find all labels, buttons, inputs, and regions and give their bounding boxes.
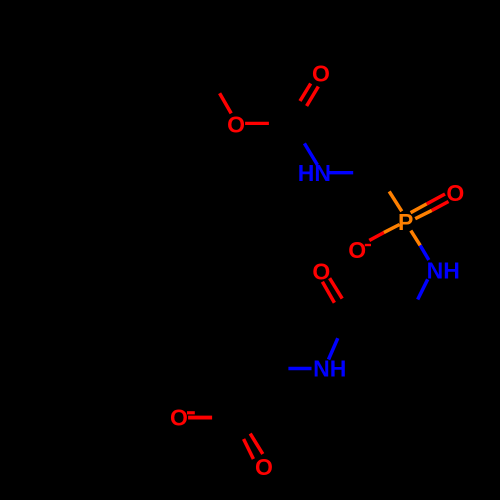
wire: bond HN to CH2 (blue half) xyxy=(328,171,353,174)
wire: C=O double bond of carbamate, left line (red half) xyxy=(300,84,311,102)
svg-text:HN: HN xyxy=(298,160,331,186)
node minus charge on carboxylate O xyxy=(187,411,195,414)
wire: bond CH2 to P (orange half) xyxy=(389,191,402,211)
wire: P=O double bond lower line red half xyxy=(432,202,449,211)
svg-text:O: O xyxy=(446,180,464,206)
svg-text:NH: NH xyxy=(313,356,346,382)
node minus charge on phosphonate O xyxy=(365,244,371,246)
svg-text:O: O xyxy=(170,404,188,430)
svg-text:P: P xyxy=(398,209,413,235)
svg-text:O: O xyxy=(227,112,245,138)
svg-text:O: O xyxy=(348,237,366,263)
wire: bond O(ester) to carbonyl C (red half) xyxy=(245,122,269,125)
svg-text:O: O xyxy=(312,61,330,87)
wire: bond P to O- (orange half) xyxy=(384,225,400,233)
wire: bond NH to CH2 below (blue half) xyxy=(418,279,428,299)
svg-text:O: O xyxy=(255,454,273,480)
wire: amide C=O double bond, right line (red half) xyxy=(330,278,343,298)
wire: carboxylate C=O double bond, left line (red half) xyxy=(244,439,254,459)
wire: P=O double bond upper line orange half xyxy=(411,204,427,213)
wire: bond carbonyl C to N of HN (blue half) xyxy=(304,143,317,165)
wire: bond P to NH (orange half) xyxy=(411,231,420,246)
wire: bond amide C to NH (blue half) xyxy=(329,338,338,359)
wire: bond P to O- (red half) xyxy=(369,233,384,241)
wire: amide C=O double bond, left line (red half) xyxy=(322,282,334,303)
wire: bond carboxylate O- to C (red half) xyxy=(188,416,212,420)
svg-text:NH: NH xyxy=(427,258,460,284)
wire: bond P to NH (blue half) xyxy=(420,245,429,260)
wire: carboxylate C=O double bond, right line (red half) xyxy=(250,434,263,454)
wire: C=O double bond of carbamate, right line (red half) xyxy=(307,87,319,107)
wire: P=O double bond lower line orange half xyxy=(415,210,432,218)
wire: bond NH to alpha C (blue half) xyxy=(288,367,311,371)
wire: bond O(ester) to C(CH3)3 (red half) xyxy=(220,93,232,113)
wire: P=O double bond upper line red half xyxy=(427,194,445,204)
svg-text:O: O xyxy=(312,258,330,284)
